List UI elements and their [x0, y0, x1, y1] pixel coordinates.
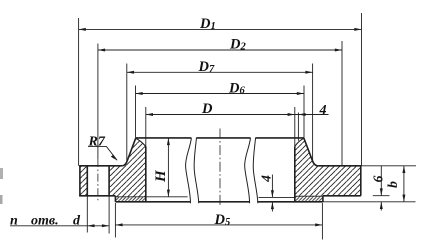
extension line ring bottom right	[373, 195, 390, 197]
arrow D right	[288, 113, 295, 116]
arrow d right	[102, 224, 109, 227]
hatch region: left outer ring column	[80, 166, 87, 196]
svg-text:4: 4	[319, 103, 327, 118]
extension line D1 right	[361, 13, 363, 166]
extension line D1 left	[78, 18, 80, 166]
dimension line D2	[98, 49, 342, 51]
arrow D2 right	[335, 49, 342, 52]
dimension line D1	[79, 28, 362, 30]
break line S-curve 3	[245, 138, 251, 203]
bolt hole right edge	[108, 166, 110, 196]
arrow D left	[146, 113, 153, 116]
centerline flange axis	[219, 129, 221, 207]
svg-text:D2: D2	[229, 37, 246, 53]
break line S-curve 1	[186, 138, 192, 203]
extension line D5 right	[321, 203, 323, 240]
arrow D7 left	[127, 71, 134, 74]
arrow 4 top	[298, 113, 305, 116]
centerline bolt hole axis	[97, 159, 99, 202]
arrow d left	[87, 224, 94, 227]
recess line left (H reference)	[115, 196, 187, 198]
hatch region: left raised-face strip	[115, 197, 145, 202]
hub top face edge	[136, 137, 304, 139]
flange outline thick lines	[79, 138, 362, 202]
arrow H top	[167, 138, 170, 145]
extension line flange top right	[362, 165, 416, 167]
recess line right (4 reference)	[259, 196, 295, 198]
svg-text:4: 4	[259, 175, 274, 183]
arrow D6 left	[136, 92, 143, 95]
extension line D6 left	[135, 86, 137, 138]
extension line D7 left	[126, 64, 128, 163]
svg-text:6: 6	[370, 175, 385, 182]
svg-text:b: b	[385, 181, 400, 188]
raised face right step	[322, 196, 324, 202]
extension line D7 right	[312, 64, 314, 163]
extension line D right	[294, 107, 296, 146]
dimension line 4 bore	[271, 175, 273, 212]
dimension line 6	[380, 166, 382, 211]
arrow 4 bore down	[271, 190, 274, 197]
arrow D5 left	[115, 223, 122, 226]
raised face left step	[114, 196, 116, 202]
svg-text:R7: R7	[88, 134, 106, 149]
svg-text:D6: D6	[228, 80, 245, 96]
dimension line D5	[115, 224, 322, 226]
dimension line D6	[136, 93, 305, 95]
arrow b top	[402, 166, 405, 173]
arrow 6 down	[380, 188, 383, 195]
arrow 4 bore up	[271, 202, 274, 209]
extension line D2 left	[97, 44, 99, 160]
dimension line b	[403, 166, 405, 202]
hub taper and fillet right	[304, 138, 318, 166]
ring top edge left	[79, 165, 122, 167]
ring bottom edge left	[79, 195, 115, 197]
extension line 4 top	[297, 113, 299, 141]
arrow D6 right	[297, 92, 304, 95]
arrow 6 up	[380, 202, 383, 209]
dimension line D and 4	[146, 114, 329, 116]
hatch region: right ring and hub section	[295, 138, 361, 196]
extension line D5 left	[114, 203, 116, 238]
dimension line H	[167, 138, 169, 197]
extension line d left	[86, 196, 88, 233]
ring bottom edge right	[323, 195, 361, 197]
R7 leader line	[88, 147, 117, 161]
hub taper and fillet left	[122, 138, 135, 166]
extension line face bottom right	[323, 201, 416, 203]
raised face bottom edge	[115, 201, 323, 203]
right strip top line	[295, 195, 323, 197]
bore right wall	[294, 146, 296, 202]
bore left wall	[145, 146, 147, 202]
hatch region: left ring and hub section	[109, 138, 146, 197]
break line S-curve 4	[253, 138, 258, 204]
arrowheads	[79, 28, 406, 227]
extension line D2 right	[341, 41, 343, 166]
scan artifact marks at left edge	[0, 168, 3, 179]
extension line d right	[108, 196, 110, 234]
weld bevel cone left	[136, 138, 146, 146]
arrow H bottom	[167, 190, 170, 197]
ring right edge	[360, 166, 362, 196]
bolt hole left edge	[86, 166, 88, 196]
hatch region: right raised-face strip	[295, 196, 323, 202]
extension line D6 right	[303, 86, 305, 138]
svg-text:d: d	[73, 214, 81, 229]
arrow D1 left	[79, 28, 86, 31]
dimension line D7	[127, 71, 313, 73]
svg-text:D1: D1	[199, 16, 216, 32]
svg-text:H: H	[153, 169, 169, 183]
svg-text:D7: D7	[198, 59, 215, 75]
ring top edge right	[318, 165, 362, 167]
break line S-curve 2	[194, 138, 199, 204]
dimension line d with label leader	[10, 225, 109, 227]
weld bevel cone right	[295, 138, 304, 146]
extension line D left	[145, 107, 147, 146]
svg-text:отв.: отв.	[31, 214, 59, 229]
arrow R7 leader	[111, 155, 118, 161]
arrow D1 right	[354, 28, 361, 31]
svg-text:D5: D5	[214, 212, 231, 228]
svg-text:D: D	[201, 101, 213, 117]
arrow b bottom	[402, 195, 405, 202]
arrow D7 right	[305, 71, 312, 74]
arrow D2 left	[98, 49, 105, 52]
svg-text:n: n	[10, 214, 18, 229]
arrow D5 right	[315, 223, 322, 226]
ring left edge	[79, 166, 81, 196]
